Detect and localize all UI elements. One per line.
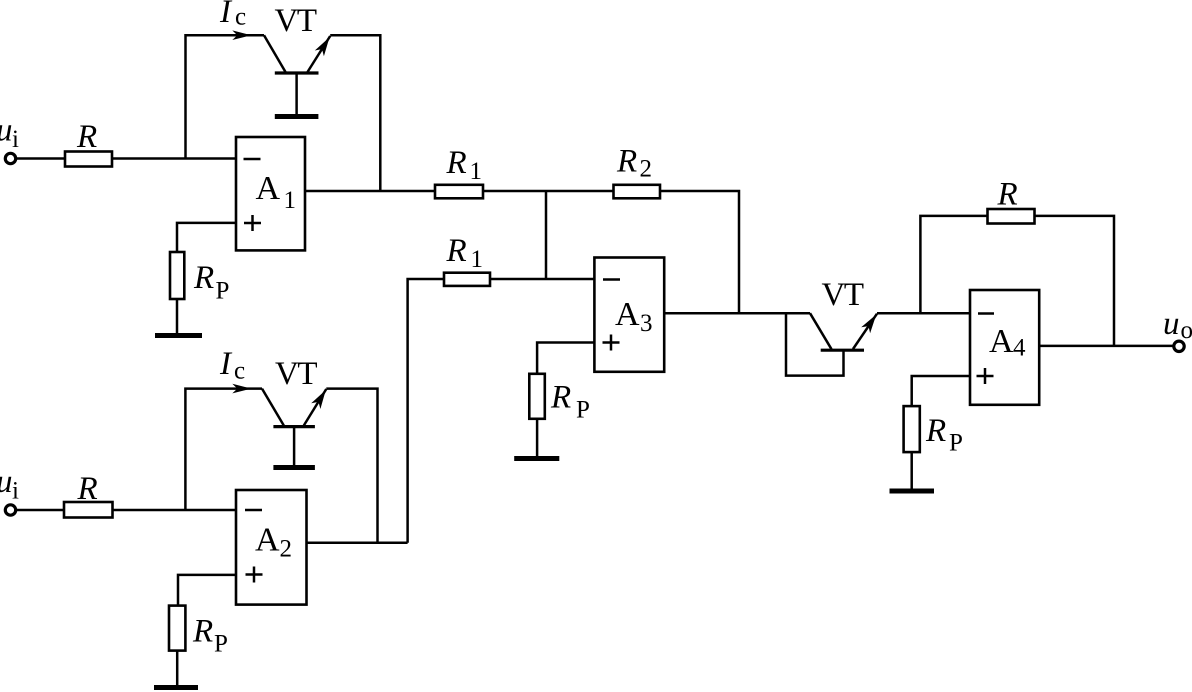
- svg-text:P: P: [214, 631, 228, 658]
- svg-text:VT: VT: [275, 3, 317, 39]
- arrow Ic (channel 2): [232, 384, 251, 394]
- resistor R (channel 2 input): [64, 502, 113, 518]
- wire VT3 emitter to A4 inverting input: [877, 312, 970, 315]
- svg-text:R: R: [77, 471, 98, 507]
- label ui (channel 2): [0, 464, 19, 505]
- wire VT3 base tie loop: [786, 313, 844, 375]
- label R2: [616, 144, 652, 183]
- node ui input terminal (channel 2): [5, 505, 15, 515]
- ground bar VT1 base: [275, 114, 319, 119]
- op-amp A1: [236, 137, 305, 250]
- pin plus A2: [246, 567, 263, 583]
- wire A3 output to VT3: [664, 312, 810, 315]
- node ui input terminal (channel 1): [5, 153, 15, 163]
- label A2: [255, 522, 292, 563]
- svg-text:u: u: [0, 113, 13, 149]
- resistor R (channel 1 input): [65, 152, 112, 167]
- node uo output terminal: [1174, 341, 1184, 351]
- label R1 (upper): [446, 145, 483, 185]
- wire junction down to summing node: [545, 191, 548, 279]
- svg-text:VT: VT: [822, 277, 864, 313]
- svg-text:1: 1: [470, 158, 483, 185]
- svg-text:I: I: [219, 346, 233, 382]
- resistor R (A4 feedback): [988, 209, 1035, 224]
- wire A2 branch vertical to R1 lower: [408, 279, 444, 543]
- wire A2 plus input to RP: [178, 575, 236, 606]
- svg-text:3: 3: [640, 310, 653, 337]
- label Ic (channel 1): [219, 0, 246, 31]
- label ui (channel 1): [0, 113, 19, 154]
- wire A1 plus input to RP: [177, 223, 236, 252]
- resistor RP (A4): [904, 406, 920, 452]
- label A4: [989, 323, 1026, 362]
- resistor RP (channel 2): [169, 606, 185, 651]
- svg-text:c: c: [235, 4, 246, 31]
- label R1 (lower): [446, 233, 484, 273]
- label RP (channel 2): [192, 614, 228, 658]
- svg-text:I: I: [219, 0, 233, 30]
- transistor VT (channel 2): [262, 389, 326, 466]
- wire R1 lower to A3 inverting input: [490, 278, 594, 281]
- svg-text:i: i: [12, 478, 19, 505]
- wire A4 plus input to RP: [912, 376, 970, 406]
- svg-text:o: o: [1181, 317, 1192, 344]
- wire A1 output to R1: [305, 190, 435, 193]
- pin plus A3: [603, 335, 620, 351]
- svg-text:P: P: [216, 278, 230, 305]
- label A3: [615, 296, 653, 337]
- svg-text:VT: VT: [275, 356, 317, 392]
- svg-text:R: R: [193, 260, 214, 296]
- wire R1 to R2: [483, 190, 614, 193]
- wire A4 output to uo: [1039, 345, 1173, 348]
- label A1: [256, 170, 297, 214]
- wire R2 to A3 output (feedback): [660, 191, 739, 313]
- label RP (A3): [550, 380, 590, 424]
- wire A3 plus input to RP: [537, 343, 594, 374]
- wire ui to R (channel 2): [16, 509, 64, 512]
- svg-text:u: u: [1163, 306, 1180, 342]
- svg-text:4: 4: [1013, 335, 1026, 362]
- ground (channel 2 RP): [154, 685, 198, 690]
- ground (A3 RP): [514, 456, 559, 461]
- svg-text:R: R: [446, 145, 467, 181]
- arrow Ic (channel 1): [232, 30, 251, 40]
- label RP (channel 1): [193, 260, 229, 305]
- transistor VT (diode-connected): [810, 313, 877, 350]
- svg-text:R: R: [446, 233, 467, 269]
- wire A2 output to branch node: [307, 542, 408, 545]
- svg-text:A: A: [256, 170, 281, 207]
- wire node up to VT2 collector loop: [185, 389, 262, 510]
- pin minus A4: [978, 312, 994, 315]
- wire R feedback to A4 output: [1035, 216, 1115, 346]
- svg-text:i: i: [12, 126, 19, 153]
- svg-text:R: R: [616, 144, 637, 180]
- svg-text:R: R: [550, 380, 571, 416]
- pin plus A4: [977, 368, 994, 384]
- op-amp A3: [594, 258, 664, 372]
- wire RP4 to ground: [910, 452, 913, 488]
- svg-text:c: c: [234, 358, 245, 385]
- pin minus A2: [245, 509, 262, 512]
- ground (A4 RP): [890, 489, 935, 494]
- label RP (A4): [925, 413, 963, 457]
- op-amp A2: [236, 490, 307, 605]
- op-amp A4: [970, 290, 1039, 405]
- ground bar VT2 base: [273, 465, 315, 470]
- svg-text:2: 2: [280, 536, 293, 563]
- wire R to A1 inverting input: [112, 157, 236, 160]
- svg-text:P: P: [576, 397, 590, 424]
- svg-text:u: u: [0, 464, 13, 500]
- svg-text:2: 2: [640, 156, 653, 183]
- label Ic (channel 2): [219, 346, 245, 385]
- resistor R1 (lower): [444, 273, 490, 286]
- resistor RP (A3): [529, 374, 545, 419]
- wire VT1 emitter to A1 output: [330, 35, 380, 191]
- svg-text:A: A: [255, 522, 280, 559]
- wire A4 feedback up: [920, 216, 987, 313]
- wire node up to VT1 collector loop: [186, 35, 265, 158]
- svg-text:A: A: [989, 323, 1014, 360]
- ground (channel 1 RP): [155, 333, 202, 338]
- transistor VT (channel 1): [264, 35, 330, 114]
- wire ui to R (channel 1): [16, 157, 65, 160]
- pin minus A3: [603, 278, 620, 281]
- resistor RP (channel 1): [170, 252, 184, 299]
- wire RP2 to ground: [176, 651, 179, 685]
- svg-text:R: R: [192, 614, 213, 650]
- wire RP1 to ground: [176, 299, 179, 333]
- resistor R1 (upper): [435, 185, 483, 199]
- pin plus A1: [244, 215, 261, 231]
- wire R to A2 inverting input: [113, 509, 237, 512]
- wire RP3 to ground: [536, 419, 539, 456]
- pin minus A1: [244, 158, 261, 161]
- svg-text:A: A: [615, 296, 640, 333]
- svg-text:1: 1: [471, 246, 484, 273]
- wire VT2 emitter to A2 output: [326, 389, 377, 543]
- svg-text:P: P: [949, 430, 963, 457]
- label uo: [1163, 306, 1192, 344]
- svg-text:R: R: [76, 119, 97, 155]
- svg-text:R: R: [925, 413, 946, 449]
- svg-text:R: R: [997, 176, 1018, 212]
- svg-text:1: 1: [284, 187, 297, 214]
- resistor R2: [614, 185, 661, 199]
